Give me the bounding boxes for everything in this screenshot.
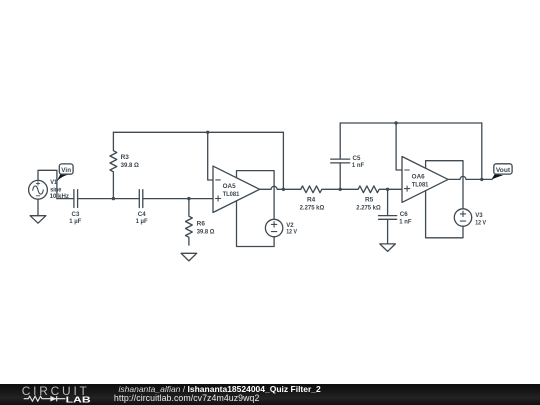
wire V1 bottom to ground bbox=[37, 199, 39, 216]
source V1 bbox=[29, 180, 48, 199]
svg-text:1 nF: 1 nF bbox=[399, 219, 411, 226]
wire C3 to node A bbox=[78, 198, 140, 200]
svg-text:V3: V3 bbox=[475, 212, 483, 219]
wire minus input drop stage1 bbox=[208, 132, 213, 180]
source V3 bbox=[454, 209, 471, 226]
svg-text:C6: C6 bbox=[400, 211, 408, 218]
svg-text:V1: V1 bbox=[50, 179, 57, 186]
footer info text bbox=[119, 385, 321, 394]
op-amp OA6 bbox=[402, 157, 448, 203]
svg-text:TL081: TL081 bbox=[412, 181, 429, 188]
svg-text:C3: C3 bbox=[72, 211, 80, 218]
svg-text:Vout: Vout bbox=[496, 167, 511, 174]
wire minus input drop stage2 bbox=[396, 123, 402, 170]
ground for V1 bbox=[30, 216, 46, 224]
resistor R4 bbox=[301, 186, 358, 193]
wire OA5 output with hop bbox=[260, 186, 301, 189]
node: top wire to minus input stage2 bbox=[394, 121, 397, 124]
svg-text:39.8 Ω: 39.8 Ω bbox=[121, 162, 139, 169]
svg-text:C4: C4 bbox=[138, 211, 146, 218]
wire main line left bbox=[57, 198, 74, 200]
svg-text:LAB: LAB bbox=[66, 395, 91, 405]
svg-text:R5: R5 bbox=[365, 196, 374, 203]
wire V1 top to Vin corner bbox=[38, 170, 57, 198]
CircuitLab logo bbox=[0, 384, 110, 405]
wire feedback drop stage2 bbox=[481, 123, 483, 179]
V1 plus mark bbox=[36, 182, 40, 186]
wire OA6 output with hop bbox=[448, 176, 492, 179]
node: R4/R5/C5 bbox=[339, 188, 342, 191]
capacitor C6 bbox=[379, 189, 397, 244]
OA5 power pins bbox=[237, 171, 275, 247]
svg-text:10 kHz: 10 kHz bbox=[50, 193, 69, 200]
junction dots bbox=[112, 121, 484, 200]
node: OA5 output/feedback bbox=[282, 188, 285, 191]
svg-text:12 V: 12 V bbox=[475, 219, 486, 226]
resistor R6 bbox=[185, 199, 192, 246]
svg-text:12 V: 12 V bbox=[286, 229, 297, 236]
node flag Vin bbox=[57, 164, 74, 182]
svg-text:R4: R4 bbox=[307, 196, 316, 203]
ground for R6 bbox=[181, 253, 197, 261]
node: OA6 output/feedback bbox=[480, 178, 483, 181]
svg-text:R6: R6 bbox=[197, 221, 206, 228]
svg-text:R3: R3 bbox=[121, 154, 130, 161]
svg-text:OA6: OA6 bbox=[412, 173, 425, 180]
svg-text:OA5: OA5 bbox=[223, 183, 236, 190]
svg-text:1 µF: 1 µF bbox=[136, 218, 148, 225]
resistor R3 bbox=[110, 132, 117, 198]
wire feedback top stage2 bbox=[340, 122, 482, 124]
ground for C6 bbox=[380, 244, 396, 252]
node: top wire to minus input stage1 bbox=[206, 131, 209, 134]
footer banner bbox=[0, 384, 540, 405]
node A: R3 bottom bbox=[112, 197, 115, 200]
svg-text:Vin: Vin bbox=[61, 167, 71, 174]
OA6 power pins bbox=[426, 161, 463, 238]
svg-text:39.8 Ω: 39.8 Ω bbox=[197, 228, 215, 235]
node: R5/C6 bbox=[386, 188, 389, 191]
capacitor C5 bbox=[331, 123, 350, 189]
svg-text:2.275 kΩ: 2.275 kΩ bbox=[300, 205, 325, 212]
resistor R5 bbox=[358, 186, 402, 193]
wire C4 to op-amp plus input bbox=[143, 198, 213, 200]
wire feedback drop stage1 bbox=[282, 132, 284, 189]
svg-text:2.275 kΩ: 2.275 kΩ bbox=[356, 205, 380, 212]
capacitor C4 bbox=[139, 190, 143, 208]
component labels bbox=[50, 154, 487, 236]
svg-text:TL081: TL081 bbox=[223, 191, 240, 198]
V1 minus mark bbox=[36, 195, 40, 197]
svg-text:1 µF: 1 µF bbox=[69, 218, 81, 225]
capacitor C3 bbox=[74, 190, 78, 208]
logo resistor-diode glyph bbox=[24, 396, 66, 401]
node: R6 top bbox=[187, 197, 190, 200]
svg-text:1 nF: 1 nF bbox=[352, 162, 364, 169]
source V2 bbox=[265, 219, 282, 236]
V1 sine mark bbox=[33, 186, 44, 194]
op-amp OA5 bbox=[213, 166, 260, 212]
node flag Vout bbox=[491, 164, 512, 180]
wire feedback top stage1 bbox=[113, 131, 283, 133]
